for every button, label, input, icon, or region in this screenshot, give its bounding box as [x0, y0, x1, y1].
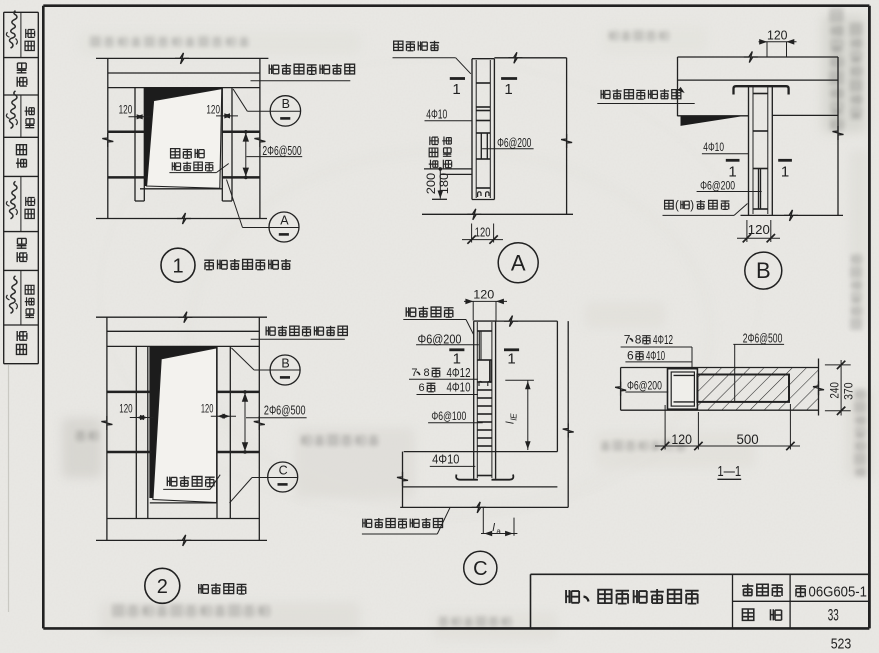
signature box: reviewer name — [25, 285, 34, 317]
section B: section title circle B — [745, 252, 782, 289]
section C: column rebar lines — [476, 322, 478, 478]
section C: lap bars upper — [478, 331, 480, 360]
section A: rotated brick labels 多孔砖 普通砖 — [429, 136, 438, 168]
signature box: designer name — [25, 107, 35, 128]
svg-text:B: B — [281, 356, 289, 370]
detail 2: dark reveal wedge — [149, 346, 216, 498]
svg-text:200: 200 — [424, 173, 438, 195]
svg-text:6: 6 — [627, 349, 634, 363]
section A: stirrup rungs — [476, 82, 490, 84]
title block: 页次 label — [742, 609, 753, 620]
section A: label 窗洞边框 with leader — [394, 41, 403, 50]
detail 1: section mark A circle — [269, 212, 299, 242]
title block: drawing title 门、窗洞口边框加固 — [566, 590, 579, 603]
svg-text:1: 1 — [172, 255, 183, 277]
detail 1: left edge frame (double line with foot) — [134, 88, 136, 201]
detail 2: section mark B circle — [270, 355, 300, 385]
svg-text:4Φ10: 4Φ10 — [426, 106, 447, 121]
label box: zhitu (drafting) — [17, 63, 27, 87]
svg-text:500: 500 — [737, 432, 759, 447]
section C: left foundation edge with break — [402, 452, 404, 508]
plan 1-1: frame box outer — [668, 369, 698, 410]
svg-text:2Φ6@500: 2Φ6@500 — [264, 403, 306, 417]
svg-text:B: B — [282, 97, 290, 111]
detail 1: right wall edge with break — [259, 58, 261, 218]
svg-text:120: 120 — [767, 29, 788, 43]
detail 1: section mark A leader — [227, 180, 243, 228]
svg-text:6: 6 — [419, 382, 425, 394]
detail 2: title 门洞边框 — [199, 584, 209, 594]
svg-text:1: 1 — [452, 81, 460, 98]
signature box: draftsman name — [25, 29, 35, 51]
section B: dark beam shadow wedge — [681, 116, 746, 126]
svg-text:240: 240 — [828, 382, 842, 399]
detail 1: wall top line with break — [96, 57, 268, 59]
section A: right wall edge with break — [566, 58, 568, 215]
svg-text:2Φ6@500: 2Φ6@500 — [743, 331, 783, 345]
title block: atlas number 新06G605-1 — [795, 586, 806, 596]
svg-text:120: 120 — [475, 225, 491, 239]
label box: shenhe (review) — [16, 331, 26, 355]
svg-text:33: 33 — [828, 607, 839, 625]
svg-text:4Φ10: 4Φ10 — [447, 381, 471, 395]
svg-text:Φ6@200: Φ6@200 — [497, 136, 531, 150]
section C: stirrup rungs dense lap zone — [477, 381, 492, 383]
detail 2: tie bar upper — [107, 391, 150, 394]
detail 2: tie bar lower — [107, 451, 152, 454]
svg-text:1: 1 — [504, 81, 512, 98]
section A: dim 120 bottom — [471, 224, 473, 243]
section C: foundation bottom line with break — [400, 506, 568, 508]
section C: section title circle C — [464, 551, 497, 584]
signature strip outline — [3, 12, 5, 363]
detail 2: label 门洞边框 with leader — [167, 477, 177, 487]
plan 1-1: masonry hatch — [697, 368, 818, 410]
svg-text:1: 1 — [453, 350, 461, 367]
svg-text:(: ( — [675, 200, 679, 212]
section A: embedment dim 200/180 — [439, 169, 441, 199]
svg-text:4Φ12: 4Φ12 — [653, 333, 673, 347]
detail 2: left wall edge with break — [106, 317, 108, 540]
detail 2: drawing number circle 2 — [145, 568, 180, 603]
section C: right wall edge — [556, 321, 558, 452]
section C: ground line — [404, 451, 558, 453]
svg-text:a: a — [496, 527, 501, 536]
detail 2: section mark C leader — [230, 478, 253, 503]
title block outline — [531, 573, 870, 575]
section B: beam top line — [678, 79, 839, 81]
signature box: checker name — [25, 197, 35, 219]
svg-text:1: 1 — [781, 163, 789, 180]
section C: label 圈梁或基础圈梁 with leader — [363, 519, 372, 528]
section A: bottom stirrup hooks — [478, 192, 481, 197]
section C: section cut marks 1 — [449, 348, 464, 351]
detail 1: label 窗洞或/门洞边框 with leader — [171, 149, 180, 158]
detail 1: tie bar upper — [108, 131, 145, 134]
title block: 图集号 label — [742, 584, 753, 596]
svg-text:B: B — [756, 258, 771, 283]
section B: hooked top bar — [734, 86, 789, 94]
svg-text:C: C — [473, 558, 487, 580]
section B: beam label 圈梁或现浇过梁 with arrow — [601, 90, 610, 99]
plan 1-1: leader drop to frame — [691, 347, 693, 372]
label box: jiaodui (proofread) — [17, 238, 27, 262]
detail 1: section mark B leader — [233, 89, 247, 111]
faint scan edge left — [8, 365, 10, 612]
svg-text:): ) — [690, 200, 694, 212]
detail 1: left wall edge with break — [107, 58, 109, 218]
svg-text:4Φ10: 4Φ10 — [432, 453, 459, 467]
detail 2: lintel bottom line — [107, 345, 259, 347]
detail 2: beam label 圈梁或现浇过梁 — [266, 326, 275, 335]
page border frame — [43, 4, 869, 7]
svg-text:Φ6@200: Φ6@200 — [700, 178, 735, 192]
section C: lap hook marks — [479, 381, 482, 386]
section A: lap bars — [480, 133, 482, 159]
section A: section title circle A — [498, 243, 538, 283]
detail 1: beam label 圈梁或现浇过梁 — [269, 64, 279, 74]
svg-text:180: 180 — [437, 173, 451, 195]
detail 2: section mark C circle — [268, 462, 298, 492]
svg-text:4Φ12: 4Φ12 — [447, 366, 471, 380]
label box: sheji (design) — [16, 145, 27, 169]
svg-text:1: 1 — [507, 350, 515, 367]
section A: masonry sill lines (two brick types) — [424, 168, 472, 170]
svg-text:120: 120 — [119, 401, 133, 415]
section B: left wall edge — [677, 57, 679, 116]
detail 1: title 窗洞或门洞边框 — [204, 260, 214, 269]
detail 1: tie bar lower — [108, 176, 147, 179]
svg-text:523: 523 — [831, 636, 852, 653]
detail 2: right edge frame — [216, 346, 218, 518]
detail 2: ring beam bottom line — [107, 330, 259, 332]
section A: rotated dim texts 200 180 — [424, 173, 438, 195]
section B: stirrup rungs — [753, 93, 768, 95]
detail 1: sill line — [140, 188, 222, 190]
section C: bent anchor bars with hooks — [456, 475, 478, 480]
svg-text:120: 120 — [473, 287, 494, 301]
detail 2: tilted leaf panel — [153, 348, 217, 503]
detail 2: floor line — [107, 518, 259, 520]
section C: column outer lines — [473, 321, 475, 479]
detail 1: 2phi6@500 connector with arrows — [245, 132, 247, 178]
detail 2: bottom line with break — [96, 539, 267, 541]
plan 1-1: embedded tie band rectangle — [697, 375, 789, 402]
svg-text:120: 120 — [206, 103, 220, 117]
section B: right wall edge with break — [837, 57, 839, 215]
svg-text:4Φ10: 4Φ10 — [703, 140, 724, 154]
svg-text:120: 120 — [671, 432, 692, 447]
svg-text:06G605-1: 06G605-1 — [809, 583, 868, 600]
svg-text:8: 8 — [424, 367, 430, 379]
section B: label 窗(门)洞边框 with leader — [665, 200, 674, 209]
section C: stirrup rungs sparse — [477, 330, 492, 332]
detail 1: dark reveal wedge — [144, 87, 222, 186]
section C: wall top line right with break — [496, 320, 558, 322]
detail 2: right wall edge with break — [258, 317, 260, 540]
detail 1: ring beam bottom line — [108, 72, 260, 74]
detail 2: left edge frame — [135, 346, 137, 518]
svg-text:A: A — [280, 214, 289, 228]
svg-text:1—1: 1—1 — [717, 463, 741, 480]
section C: foundation mid line — [403, 486, 558, 488]
svg-text:Φ6@200: Φ6@200 — [627, 379, 662, 393]
detail 2: wall top line with break — [96, 316, 267, 318]
section A: section cut marks 1 — [450, 77, 465, 80]
detail 1: right edge frame (double line with foot) — [221, 88, 223, 201]
plan 1-1: frame box inner — [671, 372, 694, 406]
section A: column outer lines — [471, 59, 473, 200]
section C: lap length dim l1E — [505, 379, 534, 381]
section A: right wall top line with break — [494, 57, 566, 59]
detail 1: drawing number circle 1 — [161, 248, 195, 282]
svg-text:2Φ6@500: 2Φ6@500 — [262, 144, 301, 158]
detail 2: opening bottom line — [150, 502, 217, 504]
section B: column outer lines — [748, 86, 750, 216]
svg-text:4Φ10: 4Φ10 — [646, 349, 665, 363]
svg-text:8: 8 — [635, 333, 642, 347]
plan 1-1: wall band outline — [621, 367, 819, 369]
section C: anchorage dim la — [482, 507, 484, 533]
detail 1: tilted leaf panel — [147, 89, 222, 189]
section B: lap bars — [758, 169, 760, 210]
detail 1: bottom wall line with break — [96, 218, 267, 220]
svg-text:120: 120 — [201, 401, 214, 415]
detail 1: lintel bottom line — [108, 87, 260, 89]
svg-text:120: 120 — [119, 103, 133, 117]
svg-text:A: A — [511, 251, 526, 276]
svg-text:370: 370 — [841, 382, 855, 400]
svg-text:C: C — [279, 463, 288, 477]
detail 2: 2phi6@500 connector with arrows — [244, 392, 246, 452]
section B: dim 120 bottom — [746, 220, 748, 242]
section B: beam bottom lines — [678, 115, 749, 117]
plan 1-1: right dim 240/370 — [825, 364, 851, 366]
section B: wall top line with break — [678, 56, 839, 58]
section C: label 门洞边框 with leader — [406, 307, 416, 317]
section B: section cut marks 1 — [726, 159, 740, 162]
section C: right extent line with break — [567, 321, 569, 507]
svg-text:lE: lE — [510, 413, 519, 421]
svg-text:2: 2 — [157, 576, 168, 598]
plan 1-1: bottom dims 120 500 — [664, 405, 666, 450]
svg-text:Φ6@100: Φ6@100 — [431, 409, 466, 423]
section A: ground line with break — [422, 213, 573, 215]
section B: column rebar lines — [752, 87, 754, 215]
section B: bottom line with break — [741, 214, 844, 216]
section A: column rebar lines — [475, 60, 477, 198]
svg-text:7: 7 — [624, 333, 631, 347]
detail 1: section mark B circle — [270, 96, 300, 126]
detail 2: section mark B leader — [231, 348, 254, 370]
